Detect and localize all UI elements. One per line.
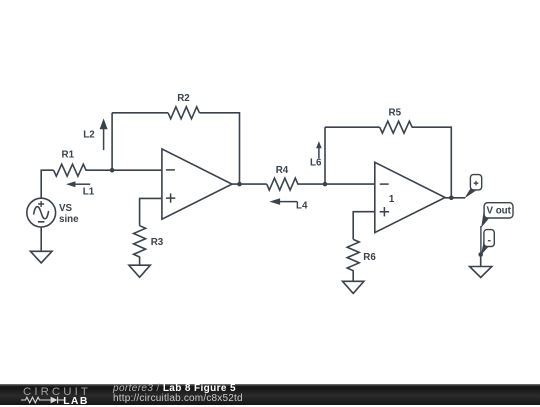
footer logo resistor-diode symbol <box>21 396 65 404</box>
wire op-amp U2 output to voltmeter <box>445 197 465 199</box>
ground below R6 <box>343 281 364 293</box>
svg-text:R6: R6 <box>363 252 376 263</box>
svg-text:R3: R3 <box>151 237 164 248</box>
node D junction dot <box>449 196 454 201</box>
voltmeter V out name label <box>481 203 513 255</box>
svg-text:L1: L1 <box>83 186 95 197</box>
wire VS bottom lead <box>40 227 42 251</box>
current arrow L2 <box>83 118 107 150</box>
svg-text:R5: R5 <box>389 107 402 118</box>
voltmeter V out - probe <box>481 230 494 255</box>
resistor R3 <box>134 226 164 257</box>
wire R1 to node A <box>85 169 112 171</box>
op-amp U2 <box>375 162 445 232</box>
svg-text:1: 1 <box>389 194 395 205</box>
voltage source VS <box>27 198 79 227</box>
wire op-amp U1 noninverting input to R3 <box>140 198 162 225</box>
current arrow L4 <box>269 198 308 211</box>
resistor R6 <box>347 239 376 270</box>
wire R6 to ground <box>352 270 354 281</box>
wire feedback 2 left vertical <box>324 127 326 184</box>
svg-text:R2: R2 <box>177 93 190 104</box>
ground below voltmeter <box>470 267 492 278</box>
wire feedback top left segment <box>112 112 168 114</box>
wire node A to op-amp U1 inverting input <box>112 169 162 171</box>
footer title line <box>113 383 236 394</box>
footer logo LAB <box>63 396 89 407</box>
ground below VS <box>30 251 52 263</box>
wire VS top lead <box>41 170 53 198</box>
wire feedback left vertical <box>111 113 113 170</box>
ground below R3 <box>129 265 150 277</box>
node A junction dot <box>110 168 115 173</box>
current arrow L6 <box>310 141 322 169</box>
svg-text:V out: V out <box>486 206 511 217</box>
wire op-amp U1 output to R4 <box>232 183 267 185</box>
op-amp U1 <box>162 149 232 219</box>
wire node E to ground <box>480 255 482 267</box>
footer logo CIRCUIT <box>23 386 91 398</box>
svg-text:L2: L2 <box>83 130 95 141</box>
footer url line <box>113 393 243 404</box>
svg-text:VS: VS <box>59 203 73 214</box>
wire feedback 2 top left segment <box>325 126 380 128</box>
resistor R5 <box>380 107 412 133</box>
wire R4 to node C <box>297 183 325 185</box>
current arrow L1 <box>66 181 95 197</box>
svg-text:L6: L6 <box>310 158 322 169</box>
svg-text:R4: R4 <box>276 165 289 176</box>
resistor R4 <box>267 165 298 190</box>
wire node C to op-amp U2 inverting input <box>325 183 375 185</box>
footer bar <box>0 384 540 405</box>
wire R3 to ground <box>139 257 141 266</box>
node E junction dot <box>478 252 483 257</box>
wire op-amp U2 noninverting input to R6 <box>353 212 375 240</box>
resistor R2 <box>168 93 199 119</box>
svg-text:R1: R1 <box>62 150 75 161</box>
voltmeter V out + probe <box>464 175 481 199</box>
node C junction dot <box>323 182 328 187</box>
svg-text:sine: sine <box>59 214 79 225</box>
wire feedback top right and down to node B <box>199 113 239 184</box>
resistor R1 <box>54 150 86 177</box>
svg-text:L4: L4 <box>296 201 308 212</box>
wire feedback 2 top right and down to output node D <box>412 127 452 198</box>
node B junction dot <box>237 182 242 187</box>
